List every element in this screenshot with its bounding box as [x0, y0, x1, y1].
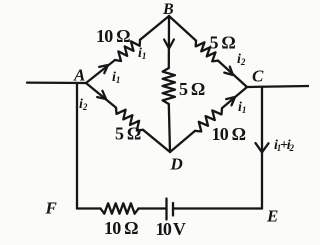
- wire bottom F to resistor: [77, 207, 101, 209]
- wire D to C lower segment: [170, 131, 195, 152]
- wire zigzag end to B: [140, 16, 169, 40]
- resistor R2 5Ω (B-C): [196, 41, 218, 62]
- wire left horizontal into A: [27, 81, 86, 84]
- svg-text:5 Ω: 5 Ω: [115, 124, 141, 144]
- wire middle resistor to D: [169, 104, 170, 152]
- arrow i1 on A-B near A: [99, 65, 108, 73]
- svg-text:5 Ω: 5 Ω: [210, 33, 236, 53]
- wire zigzag end to D: [143, 130, 170, 152]
- resistor R5 5Ω (B-D middle): [163, 68, 175, 104]
- wire zigzag end to C: [222, 87, 247, 108]
- svg-text:i1: i1: [112, 70, 120, 85]
- wire A to B lower segment: [86, 60, 115, 83]
- svg-text:i1: i1: [238, 100, 246, 115]
- wire zigzag end to C: [218, 61, 247, 87]
- svg-text:E: E: [266, 207, 278, 226]
- arrow i1 on D-C near C: [226, 97, 235, 105]
- battery V1 long plate: [165, 199, 167, 220]
- arrow i2 on B-C near C: [224, 67, 233, 75]
- svg-text:D: D: [170, 155, 183, 174]
- svg-text:10 Ω: 10 Ω: [96, 26, 130, 46]
- resistor R4 10Ω (D-C): [195, 108, 222, 131]
- arrow total current pointing down on right wire: [256, 143, 269, 152]
- arrow i2 on A-D near A: [97, 91, 106, 99]
- wire resistor to battery: [139, 207, 167, 209]
- resistor R1 10Ω (A-B): [115, 40, 140, 61]
- wire B down to middle resistor: [168, 16, 170, 68]
- svg-text:i1: i1: [138, 46, 146, 61]
- svg-text:10 Ω: 10 Ω: [212, 124, 246, 144]
- svg-text:i2: i2: [79, 97, 88, 112]
- arrow on middle branch pointing down: [164, 40, 174, 49]
- wire A to D upper segment: [86, 83, 116, 108]
- wire left vertical A-branch down to F: [76, 83, 78, 209]
- svg-text:5 Ω: 5 Ω: [179, 79, 205, 99]
- resistor R6 10Ω (bottom): [101, 203, 139, 213]
- wire C to right edge: [247, 86, 309, 87]
- svg-text:i2: i2: [237, 52, 246, 67]
- svg-text:C: C: [252, 67, 264, 86]
- svg-text:10 V: 10 V: [156, 219, 186, 239]
- svg-text:10 Ω: 10 Ω: [104, 218, 138, 238]
- svg-text:B: B: [162, 1, 174, 18]
- wire B to C upper segment: [169, 16, 196, 41]
- svg-text:F: F: [45, 199, 58, 218]
- resistor R3 5Ω (A-D): [116, 108, 143, 131]
- svg-text:A: A: [73, 66, 85, 85]
- svg-text:i1+i2: i1+i2: [274, 138, 294, 153]
- wire battery to E: [173, 207, 262, 209]
- wire right vertical C-branch down to E: [261, 87, 263, 209]
- battery V1 short plate: [172, 203, 174, 216]
